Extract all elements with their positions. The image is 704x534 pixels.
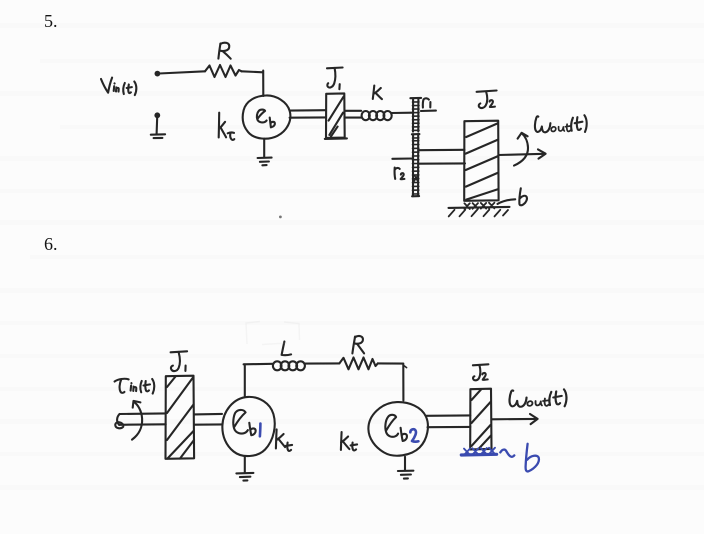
svg-text:6.: 6. — [44, 234, 58, 254]
svg-text:5.: 5. — [44, 11, 58, 31]
